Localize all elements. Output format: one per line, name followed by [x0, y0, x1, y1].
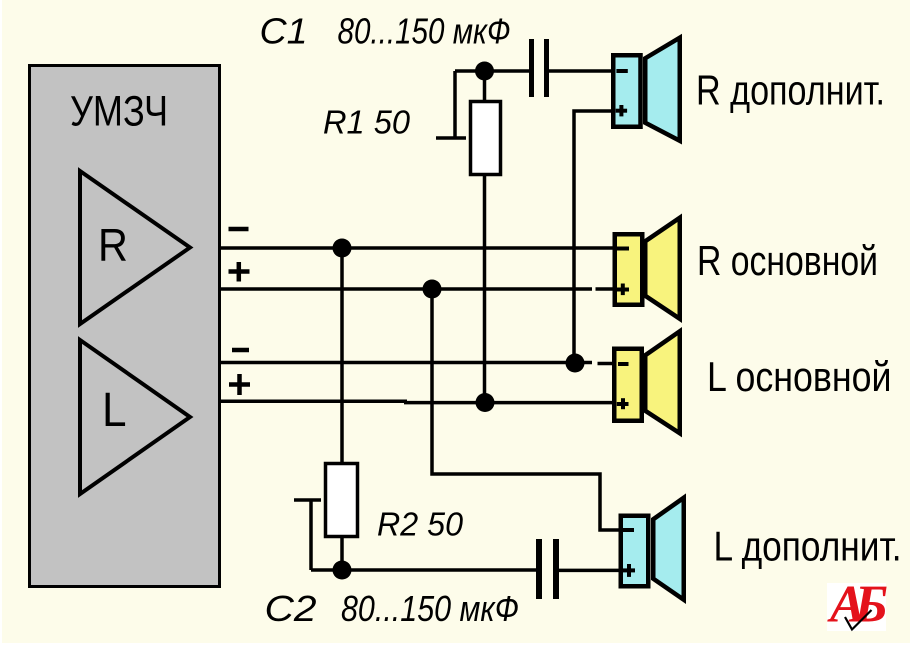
svg-text:L: L: [102, 382, 127, 436]
svg-text:R дополнит.: R дополнит.: [696, 67, 885, 114]
svg-text:R2 50: R2 50: [377, 507, 463, 544]
svg-text:R1 50: R1 50: [323, 103, 411, 140]
svg-text:L основной: L основной: [707, 353, 892, 400]
svg-text:C1: C1: [260, 11, 308, 52]
svg-text:УМЗЧ: УМЗЧ: [70, 88, 168, 136]
svg-text:R основной: R основной: [697, 237, 878, 284]
svg-text:80...150 мкФ: 80...150 мкФ: [341, 588, 519, 629]
svg-text:C2: C2: [265, 588, 317, 629]
svg-text:R: R: [98, 220, 128, 272]
svg-text:80...150 мкФ: 80...150 мкФ: [338, 11, 511, 52]
svg-text:L дополнит.: L дополнит.: [714, 522, 902, 569]
